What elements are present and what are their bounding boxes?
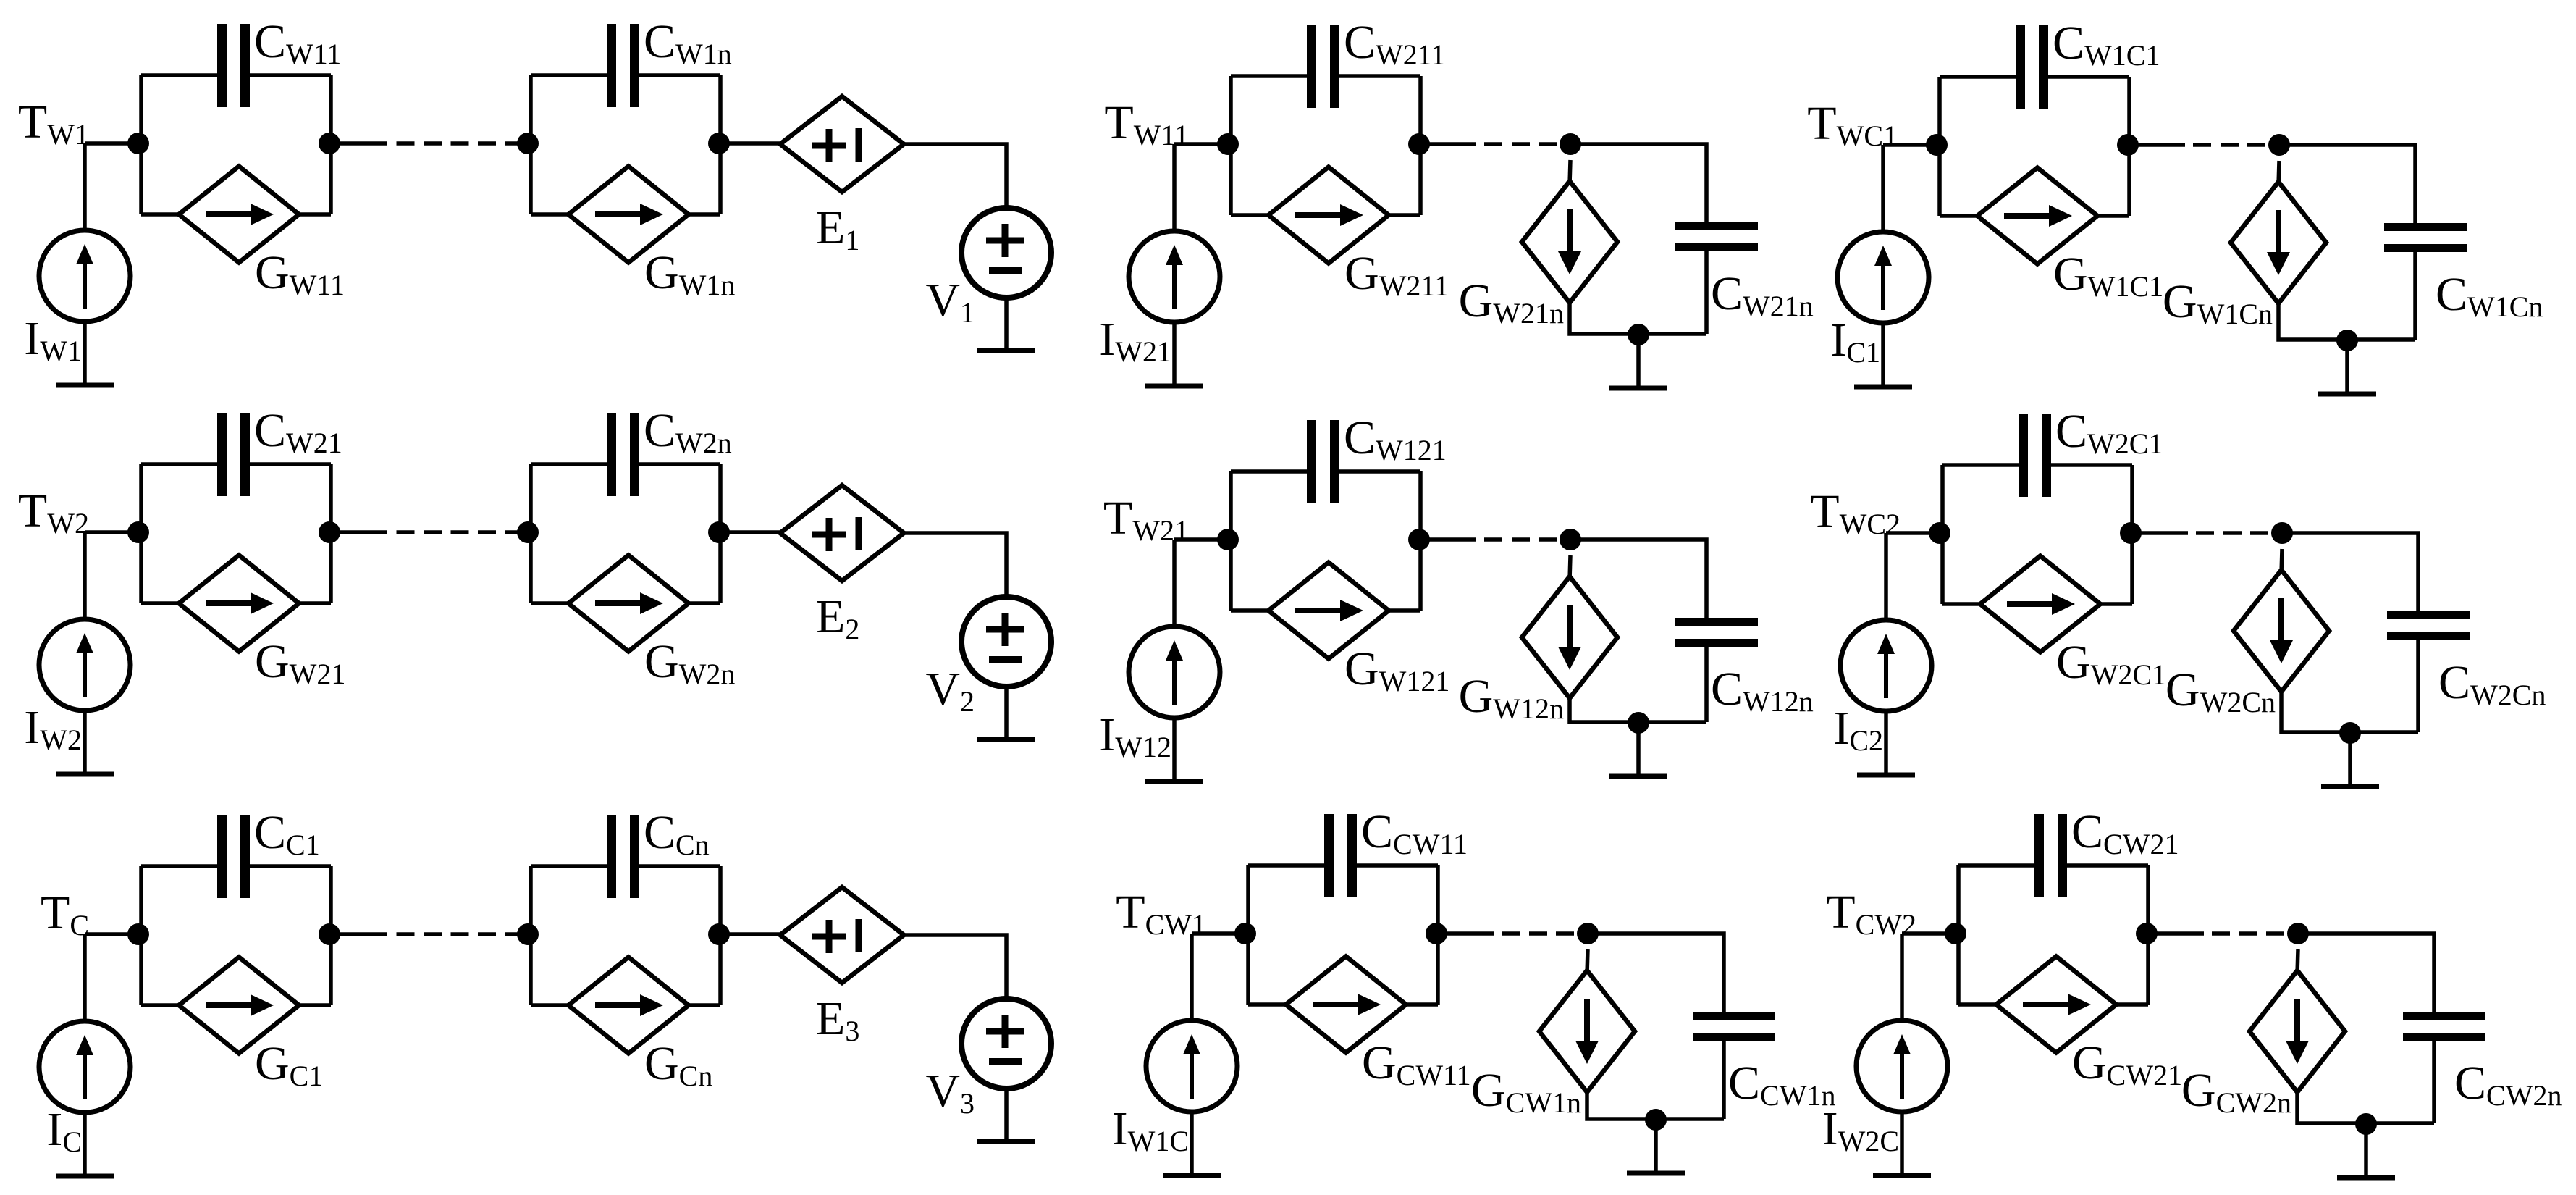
wire: top rail of C_W2C1 block — [1942, 463, 2132, 467]
capacitor C_W1C1 — [2021, 25, 2044, 109]
junction dot (top of G_CW1n) — [1577, 923, 1599, 944]
wire: node T_W2 to first block — [85, 530, 141, 534]
VCCS G_Cn (diamond, right arrow) — [568, 957, 689, 1054]
junction dot (left of C_W2n block) — [517, 521, 539, 543]
ground (bottom rail) — [2321, 784, 2379, 789]
circuit row2-right: T_WC2 network — [1810, 405, 2546, 787]
VCCS G_W2C1 (diamond, right arrow) — [1980, 556, 2100, 653]
wire: node T_CW2 to first block — [1902, 931, 1958, 936]
ground (I_W2C) — [1873, 1173, 1931, 1178]
wire: node T_W21 to first block — [1174, 537, 1231, 542]
junction dot (right of C_W121 block) — [1408, 529, 1430, 550]
wire: G_W21n diamond to bottom rail — [1570, 303, 1706, 334]
wire: top rail of C_CW11 block — [1248, 863, 1438, 868]
capacitor C_W21 — [222, 413, 245, 496]
wire: capacitor C_W1Cn to bottom rail — [2413, 252, 2417, 340]
VCCS G_W121 (diamond, right arrow) — [1268, 563, 1389, 659]
wire: V_1 to ground — [1004, 298, 1009, 351]
wire: bottom rail of C_W21 block — [141, 601, 331, 605]
wire: junction to capacitor C_W12n — [1570, 540, 1706, 618]
wire: right rail of C_CW11 block — [1436, 865, 1440, 1005]
wire: G_CW2n diamond to bottom rail — [2297, 1092, 2434, 1123]
ground (V_2) — [977, 737, 1035, 742]
VCCS G_CW1n (diamond, down arrow) — [1539, 970, 1635, 1092]
junction dot (node T_CW1) — [1234, 923, 1256, 944]
capacitor C_W2C1 — [2024, 414, 2047, 497]
wire: capacitor C_W2Cn to bottom rail — [2416, 640, 2420, 732]
junction dot (bottom rail) — [1628, 712, 1649, 734]
wire: junction to capacitor C_W1Cn — [2279, 145, 2415, 223]
circuit row1-left: wire 1 chain — [18, 15, 1051, 385]
wire: node down to current source I_C — [83, 934, 87, 1022]
wire: node T_CW1 to first block — [1192, 931, 1248, 936]
wire: current source I_C2 to ground — [1884, 711, 1888, 775]
ground (I_W1C) — [1163, 1173, 1221, 1178]
wire: node down to current source I_W21 — [1172, 144, 1177, 232]
wire: top rail of C_CW21 block — [1958, 863, 2148, 868]
circuit row3-left: core chain — [39, 806, 1051, 1176]
wire: bottom rail of C_W11 block — [141, 212, 331, 217]
wire: dashed stub to G_W12n diamond — [1570, 555, 1570, 580]
VCCS G_CW11 (diamond, right arrow) — [1286, 957, 1406, 1053]
wire: top rail of C_W1n block — [531, 73, 720, 77]
VCCS G_C1 (diamond, right arrow) — [179, 957, 299, 1054]
ground (bottom rail) — [1627, 1171, 1685, 1176]
ground (V_3) — [977, 1139, 1035, 1144]
dashed wire between blocks — [331, 530, 531, 534]
ground (I_W1) — [56, 383, 114, 388]
wire: top rail of C_W2n block — [531, 462, 720, 466]
circuit row3-middle: T_CW1 network — [1112, 805, 1836, 1175]
wire: left rail of C_Cn block — [529, 866, 533, 1005]
wire: bottom rail of C_CW11 block — [1248, 1002, 1438, 1007]
ground (bottom rail) — [1609, 774, 1667, 779]
junction dot (bottom rail) — [2339, 722, 2361, 744]
VCCS G_W11 (diamond, right arrow) — [179, 167, 299, 263]
dashed wire to G_W1Cn branch — [2129, 143, 2279, 147]
wire: bottom rail of C_CW21 block — [1958, 1002, 2148, 1007]
junction dot (node T_CW2) — [1945, 923, 1966, 944]
junction dot (bottom rail) — [1645, 1109, 1667, 1131]
dashed wire to G_CW2n branch — [2148, 931, 2298, 936]
circuit row2-left: wire 2 chain — [18, 404, 1051, 774]
junction dot (right of C_W2n block) — [708, 521, 730, 543]
wire: left rail of C_W1C1 block — [1937, 77, 1942, 216]
wire: dashed stub to G_W1Cn diamond — [2278, 161, 2279, 185]
wire: dashed stub to G_W21n diamond — [1570, 160, 1570, 185]
capacitor C_W2n — [612, 413, 635, 496]
junction dot (node T_WC2) — [1929, 522, 1950, 544]
wire: top rail of C_W211 block — [1231, 74, 1420, 78]
wire: junction to capacitor C_CW2n — [2298, 934, 2434, 1012]
wire: node down to current source I_C1 — [1881, 145, 1885, 232]
wire: right rail of C_CW21 block — [2146, 865, 2150, 1005]
junction dot (left of C_W1n block) — [517, 133, 539, 154]
wire: G_CW1n diamond to bottom rail — [1587, 1092, 1724, 1119]
ground (I_W2) — [56, 772, 114, 777]
capacitor C_Cn — [612, 815, 635, 898]
junction dot (right of C_W1n block) — [708, 133, 730, 154]
wire: V_2 to ground — [1004, 687, 1009, 739]
junction dot (right of C_W1C1 block) — [2117, 134, 2139, 156]
VCCS G_W1Cn (diamond, down arrow) — [2231, 182, 2326, 303]
capacitor C_W211 — [1312, 25, 1335, 108]
wire: dashed stub to G_CW1n diamond — [1587, 949, 1588, 974]
VCCS G_W211 (diamond, right arrow) — [1268, 167, 1389, 264]
circuit row1-right: T_WC1 network — [1807, 17, 2543, 394]
wire: right rail of C_W1C1 block — [2127, 77, 2131, 216]
VCCS G_W1n (diamond, right arrow) — [568, 167, 689, 263]
wire: node down to current source I_C2 — [1884, 533, 1888, 621]
junction dot (bottom rail) — [2336, 330, 2358, 351]
junction dot (right of C_C1 block) — [319, 923, 340, 945]
wire: left rail of C_CW11 block — [1246, 865, 1250, 1005]
VCCS G_W2n (diamond, right arrow) — [568, 555, 689, 652]
current source I_W1 (circle, up arrow) — [39, 230, 130, 322]
voltage source V_1 (circle +/-) — [961, 208, 1051, 298]
current source I_W21 (circle, up arrow) — [1129, 231, 1220, 322]
wire: bottom rail to ground — [2348, 733, 2352, 787]
current source I_W2 (circle, up arrow) — [39, 619, 130, 710]
wire: bottom rail to ground — [1636, 335, 1641, 388]
junction dot (top of G_W1Cn) — [2268, 134, 2290, 156]
wire: dashed stub to G_CW2n diamond — [2297, 949, 2298, 974]
junction dot (right of C_W2C1 block) — [2120, 522, 2142, 544]
current source I_W12 (circle, up arrow) — [1129, 626, 1220, 718]
junction dot (node T_W21) — [1217, 529, 1239, 550]
wire: junction to capacitor C_W21n — [1570, 144, 1706, 222]
wire: current source I_W1 to ground — [83, 322, 87, 385]
wire: right rail of C_W11 block — [329, 75, 333, 214]
wire: right rail of C_W2n block — [718, 464, 723, 603]
wire: node T_WC1 to first block — [1883, 143, 1940, 147]
VCCS G_W12n (diamond, down arrow) — [1522, 576, 1617, 698]
junction dot (right of C_CW21 block) — [2136, 923, 2158, 944]
junction dot (right of C_CW11 block) — [1426, 923, 1447, 944]
junction dot (node T_W1) — [127, 133, 149, 154]
VCCS G_W1C1 (diamond, right arrow) — [1977, 168, 2097, 264]
wire: current source I_W2 to ground — [83, 710, 87, 774]
wire: bottom rail to ground — [2345, 340, 2349, 394]
wire: right rail of C_Cn block — [718, 866, 723, 1005]
wire: current source I_C1 to ground — [1881, 323, 1885, 387]
VCCS G_W2Cn (diamond, down arrow) — [2234, 570, 2329, 692]
junction dot (node T_C) — [127, 923, 149, 945]
ground (I_C) — [56, 1174, 114, 1179]
current source I_C (circle, up arrow) — [39, 1021, 130, 1112]
capacitor C_W1Cn (horizontal plates) — [2384, 227, 2467, 248]
current source I_C1 (circle, up arrow) — [1838, 232, 1929, 323]
wire: block to controlled source E_3 — [720, 932, 780, 936]
circuit row1-middle: T_W11 network — [1099, 16, 1814, 388]
wire: bottom rail of C_W211 block — [1231, 213, 1420, 217]
wire: junction to capacitor C_CW1n — [1588, 934, 1724, 1012]
ground (bottom rail) — [1609, 386, 1667, 391]
junction dot (top of G_W2Cn) — [2271, 522, 2293, 544]
wire: left rail of C_CW21 block — [1956, 865, 1961, 1005]
wire: node down to current source I_W2 — [83, 532, 87, 620]
controlled voltage source E_2 (diamond +|) — [780, 485, 904, 581]
wire: left rail of C_W21 block — [139, 464, 143, 603]
wire: bottom rail of C_W2n block — [531, 601, 720, 605]
controlled voltage source E_1 (diamond +|) — [780, 96, 904, 192]
junction dot (bottom rail) — [1628, 324, 1649, 345]
VCCS G_W21n (diamond, down arrow) — [1522, 181, 1617, 303]
wire: node T_W11 to first block — [1174, 142, 1231, 146]
wire: capacitor C_W21n to bottom rail — [1704, 251, 1709, 334]
wire: G_W12n diamond to bottom rail — [1570, 698, 1706, 722]
junction dot (right of C_Cn block) — [708, 923, 730, 945]
junction dot (top of G_W12n) — [1560, 529, 1581, 550]
ground (I_C2) — [1857, 773, 1915, 778]
wire: left rail of C_W1n block — [529, 75, 533, 214]
wire: E_1 to voltage source V_1 — [904, 144, 1007, 208]
current source I_W2C (circle, up arrow) — [1856, 1020, 1948, 1112]
wire: bottom rail of C_W2C1 block — [1942, 602, 2132, 606]
wire: top rail of C_W1C1 block — [1940, 75, 2129, 79]
wire: right rail of C_W121 block — [1418, 471, 1423, 611]
wire: node T_C to first block — [85, 932, 141, 936]
dashed wire between blocks — [331, 932, 531, 936]
wire: right rail of C_W1n block — [718, 75, 723, 214]
junction dot (node T_W11) — [1217, 133, 1239, 155]
ground (bottom rail) — [2318, 392, 2376, 397]
capacitor C_CW21 — [2040, 814, 2063, 897]
wire: top rail of C_W21 block — [141, 462, 331, 466]
wire: current source I_W21 to ground — [1172, 322, 1177, 386]
VCCS G_W21 (diamond, right arrow) — [179, 555, 299, 652]
ground (bottom rail) — [2337, 1175, 2395, 1181]
wire: bottom rail of C_W121 block — [1231, 608, 1420, 613]
wire: current source I_C to ground — [83, 1112, 87, 1176]
wire: block to controlled source E_1 — [720, 141, 780, 146]
wire: bottom rail of C_C1 block — [141, 1003, 331, 1007]
ground (V_1) — [977, 348, 1035, 353]
junction dot (top of G_W21n) — [1560, 133, 1581, 155]
wire: V_3 to ground — [1004, 1089, 1009, 1141]
junction dot (left of C_Cn block) — [517, 923, 539, 945]
wire: junction to capacitor C_W2Cn — [2282, 533, 2418, 611]
wire: capacitor C_CW2n to bottom rail — [2432, 1041, 2436, 1123]
junction dot (right of C_W11 block) — [319, 133, 340, 154]
ground (I_W21) — [1145, 384, 1203, 389]
wire: capacitor C_W12n to bottom rail — [1704, 647, 1709, 722]
capacitor C_W12n (horizontal plates) — [1675, 622, 1758, 643]
wire: right rail of C_C1 block — [329, 866, 333, 1005]
wire: node down to current source I_W1 — [83, 143, 87, 231]
voltage source V_2 (circle +/-) — [961, 597, 1051, 687]
capacitor C_W121 — [1312, 420, 1335, 503]
wire: node down to current source I_W12 — [1172, 540, 1177, 627]
wire: left rail of C_W11 block — [139, 75, 143, 214]
VCCS G_CW2n (diamond, down arrow) — [2249, 970, 2345, 1092]
junction dot (node T_WC1) — [1926, 134, 1948, 156]
junction dot (top of G_CW2n) — [2287, 923, 2309, 944]
dashed wire to G_W12n branch — [1420, 537, 1570, 542]
wire: capacitor C_CW1n to bottom rail — [1722, 1041, 1726, 1119]
wire: bottom rail to ground — [1636, 723, 1641, 776]
capacitor C_CW1n (horizontal plates) — [1693, 1016, 1775, 1037]
wire: bottom rail of C_W1C1 block — [1940, 214, 2129, 218]
ground (I_C1) — [1854, 385, 1912, 390]
capacitor C_W2Cn (horizontal plates) — [2387, 616, 2470, 637]
wire: top rail of C_C1 block — [141, 864, 331, 868]
wire: current source I_W2C to ground — [1900, 1112, 1904, 1175]
controlled voltage source E_3 (diamond +|) — [780, 887, 904, 983]
wire: top rail of C_W11 block — [141, 73, 331, 77]
wire: bottom rail to ground — [2364, 1124, 2368, 1178]
dashed wire to G_CW1n branch — [1438, 931, 1588, 936]
current source I_W1C (circle, up arrow) — [1146, 1020, 1237, 1112]
junction dot (right of C_W21 block) — [319, 521, 340, 543]
wire: left rail of C_W121 block — [1229, 471, 1233, 611]
wire: block to controlled source E_2 — [720, 530, 780, 534]
wire: left rail of C_W2C1 block — [1940, 465, 1945, 604]
wire: right rail of C_W21 block — [329, 464, 333, 603]
current source I_C2 (circle, up arrow) — [1840, 620, 1932, 711]
wire: node T_WC2 to first block — [1886, 531, 1942, 535]
wire: current source I_W1C to ground — [1190, 1112, 1194, 1175]
wire: bottom rail to ground — [1654, 1120, 1658, 1173]
capacitor C_C1 — [222, 815, 245, 898]
capacitor C_CW2n (horizontal plates) — [2403, 1016, 2485, 1037]
wire: left rail of C_W2n block — [529, 464, 533, 603]
dashed wire to G_W21n branch — [1420, 142, 1570, 146]
wire: node down to current source I_W1C — [1190, 934, 1194, 1021]
dashed wire between blocks — [331, 141, 531, 146]
wire: E_2 to voltage source V_2 — [904, 533, 1007, 597]
circuit row3-right: T_CW2 network — [1822, 805, 2562, 1178]
wire: dashed stub to G_W2Cn diamond — [2281, 549, 2282, 574]
capacitor C_CW11 — [1329, 814, 1352, 897]
circuit row2-middle: T_W21 network — [1099, 411, 1814, 781]
wire: top rail of C_Cn block — [531, 864, 720, 868]
wire: top rail of C_W121 block — [1231, 469, 1420, 474]
junction dot (right of C_W211 block) — [1408, 133, 1430, 155]
wire: E_3 to voltage source V_3 — [904, 935, 1007, 999]
capacitor C_W21n (horizontal plates) — [1675, 227, 1758, 248]
voltage source V_3 (circle +/-) — [961, 999, 1051, 1089]
wire: left rail of C_C1 block — [139, 866, 143, 1005]
wire: current source I_W12 to ground — [1172, 718, 1177, 781]
ground (I_W12) — [1145, 779, 1203, 784]
junction dot (bottom rail) — [2355, 1113, 2377, 1135]
wire: G_W1Cn diamond to bottom rail — [2278, 303, 2415, 340]
wire: node down to current source I_W2C — [1900, 934, 1904, 1021]
wire: G_W2Cn diamond to bottom rail — [2281, 692, 2418, 732]
wire: right rail of C_W2C1 block — [2130, 465, 2134, 604]
capacitor C_W11 — [222, 24, 245, 107]
capacitor C_W1n — [612, 24, 635, 107]
wire: bottom rail of C_W1n block — [531, 212, 720, 217]
VCCS G_CW21 (diamond, right arrow) — [1996, 957, 2116, 1053]
wire: left rail of C_W211 block — [1229, 76, 1233, 215]
wire: bottom rail of C_Cn block — [531, 1003, 720, 1007]
wire: node T_W1 to first block — [85, 141, 141, 146]
junction dot (node T_W2) — [127, 521, 149, 543]
wire: right rail of C_W211 block — [1418, 76, 1423, 215]
dashed wire to G_W2Cn branch — [2132, 531, 2282, 535]
